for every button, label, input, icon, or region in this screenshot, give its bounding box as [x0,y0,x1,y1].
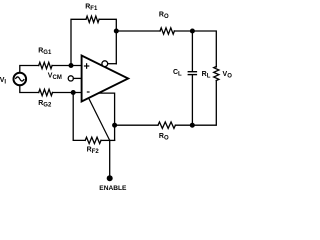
source Vi [13,73,26,86]
wire + node up to RF1 [71,19,86,65]
wire out- node to RO [116,30,160,32]
wire source top [20,66,39,73]
pin + [84,63,89,69]
wire RO bottom to load node [175,124,192,126]
svg-text:O: O [164,135,169,141]
svg-text:G2: G2 [43,103,52,109]
svg-text:O: O [227,73,232,79]
wire to + input [52,65,82,67]
wire RF2 right to out+ [101,139,115,141]
svg-text:CM: CM [53,75,62,81]
node RF1/RO junction [114,29,119,34]
wire enable down [109,140,111,178]
resistor RG1 [39,62,52,68]
output bubble (out-) [102,61,108,67]
label RO top [159,11,169,20]
wire source bottom [20,85,39,92]
enable pin diagonal [89,98,110,140]
wire out+ [99,93,115,140]
wire out- to node [108,63,117,65]
resistor RO top [160,28,174,34]
terminal ENABLE [107,175,113,181]
svg-text:ENABLE: ENABLE [99,185,127,192]
label RL [202,71,211,80]
capacitor CL [188,31,198,125]
node load top [190,29,195,34]
node out+/RO junction [112,123,117,128]
wire out+ node to RO bottom [115,124,158,126]
wire top to RL [192,31,216,67]
wire bottom to RL [192,81,216,126]
pin - [87,91,90,93]
resistor RF2 [85,137,101,143]
svg-text:F1: F1 [90,6,98,12]
label RG1 [38,47,52,56]
label VO [223,71,233,80]
node load bottom [190,123,195,128]
label VCM [48,72,62,81]
label RF1 [85,4,98,13]
node + input junction [69,63,74,68]
svg-text:L: L [207,73,211,79]
op-amp U1 (fully differential) [82,56,129,102]
wire VCM to amp [73,77,81,79]
svg-text:L: L [178,72,182,78]
label RO bottom [159,133,169,142]
resistor RL [214,67,219,81]
terminal VCM [68,76,73,81]
wire RO to load node [174,30,192,32]
label RF2 [87,146,100,155]
wire RF1 right down to out- [99,19,116,63]
svg-text:O: O [164,14,169,20]
node - input junction [71,90,76,95]
label Vi [0,77,6,86]
wire to - input [53,92,82,94]
resistor RG2 [39,89,53,95]
resistor RF1 [86,16,99,22]
wire - node down to RF2 [73,93,85,141]
resistor RO bottom [158,122,175,128]
svg-text:G1: G1 [43,50,52,56]
label RG2 [38,100,52,109]
label CL [173,69,182,78]
svg-text:F2: F2 [92,149,100,155]
